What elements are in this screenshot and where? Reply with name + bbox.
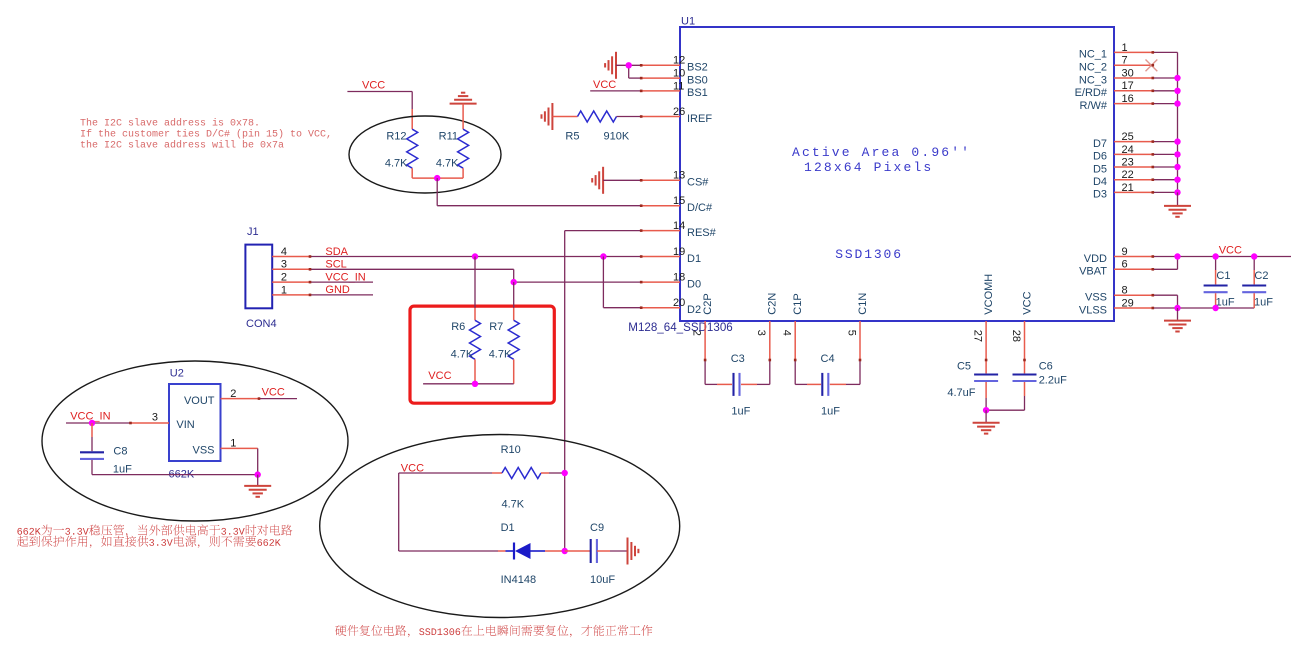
U1 pin 18 D0 stub: [641, 272, 701, 291]
wire D4 to bus and junction: [1153, 177, 1181, 183]
wire VBAT up to VDD: [1153, 257, 1178, 270]
svg-text:4: 4: [281, 246, 287, 258]
svg-text:12: 12: [673, 55, 685, 67]
svg-text:U2: U2: [170, 368, 184, 380]
svg-text:2: 2: [691, 330, 703, 336]
svg-text:NC_3: NC_3: [1079, 74, 1107, 86]
no-connect X on NC_2: [1146, 60, 1158, 72]
wire junction down to D/C# net: [437, 178, 641, 206]
wire C4 to C1N: [830, 321, 860, 384]
wire VCC_IN from J1: [310, 281, 373, 283]
svg-text:27: 27: [972, 330, 984, 342]
U1 pin 22 D4 stub: [1093, 169, 1153, 188]
wire C1P down: [795, 321, 821, 384]
wire diode to junction: [545, 550, 565, 552]
svg-text:24: 24: [1122, 144, 1134, 156]
svg-text:VCC: VCC: [362, 80, 385, 92]
resistor R11 4.7K: [436, 129, 469, 169]
U1 pin 13 CS# stub: [641, 170, 709, 189]
junction VDD VBAT: [1174, 253, 1180, 259]
junction SCL D0 R7: [511, 279, 517, 285]
svg-text:20: 20: [673, 297, 685, 309]
U1 pin 1 NC_1 stub: [1079, 42, 1153, 61]
wire D0 from SCL bend to U1: [514, 281, 642, 283]
svg-text:C2P: C2P: [702, 293, 714, 314]
svg-text:the I2C slave address will be: the I2C slave address will be 0x7a: [80, 140, 284, 152]
svg-text:BS1: BS1: [687, 87, 708, 99]
svg-text:BS0: BS0: [687, 74, 708, 86]
capacitor C4 1uF: [821, 353, 841, 418]
J1 pin 4 stub: [272, 246, 310, 258]
wire NC_3 to bus and junction: [1153, 75, 1181, 81]
svg-text:1uF: 1uF: [731, 406, 750, 418]
wire VCC left side down: [399, 473, 498, 551]
net label VCC_IN at U2: [70, 410, 110, 422]
svg-text:D5: D5: [1093, 163, 1107, 175]
svg-text:4.7K: 4.7K: [451, 349, 474, 361]
resistor R7 4.7K: [489, 320, 520, 360]
note text 662K regulator (chinese): [17, 524, 292, 548]
power port VCC at reset circuit: [401, 463, 424, 475]
svg-text:1: 1: [1122, 42, 1128, 54]
U1 pin 8 VSS stub: [1085, 285, 1153, 304]
svg-text:128x64 Pixels: 128x64 Pixels: [804, 160, 933, 175]
U1 pin 4 C1P (bottom): [781, 293, 804, 336]
svg-text:1: 1: [230, 438, 236, 450]
junction C1 top: [1212, 253, 1218, 259]
U1 pin 3 C2N (bottom): [755, 293, 778, 336]
capacitor C8 1uF: [80, 423, 132, 476]
svg-text:C5: C5: [957, 361, 971, 373]
svg-text:4.7K: 4.7K: [436, 158, 459, 170]
svg-text:14: 14: [673, 220, 685, 232]
power port VCC at VOUT: [262, 387, 285, 399]
junction BS2 gnd: [626, 62, 632, 68]
ground below U2: [244, 475, 271, 497]
svg-text:M128_64_SSD1306: M128_64_SSD1306: [628, 321, 732, 334]
regulator U2 662K body: [169, 368, 221, 481]
U1 pin 14 RES# stub: [641, 220, 716, 239]
highlight red rectangle around R6 R7: [410, 306, 554, 403]
svg-text:NC_2: NC_2: [1079, 62, 1107, 74]
wire D7 to bus and junction: [1153, 138, 1181, 144]
ground at BS2 BS0 (pointing left): [605, 52, 616, 79]
svg-text:6: 6: [1122, 259, 1128, 271]
svg-text:D3: D3: [1093, 189, 1107, 201]
wire ground to R11: [462, 104, 464, 130]
capacitor C6 2.2uF: [986, 321, 1067, 410]
junction VLSS ground: [1174, 305, 1180, 311]
svg-text:VCC: VCC: [1219, 245, 1242, 257]
U1 text Active Area 0.96 inch: [792, 145, 971, 160]
svg-text:D4: D4: [1093, 176, 1107, 188]
ellipse around R12 R11: [349, 116, 501, 193]
U1 pin 17 E/RD# stub: [1075, 80, 1153, 99]
junction RES# D1 C9: [562, 548, 568, 554]
ground right of C9 (pointing right): [628, 538, 639, 565]
svg-text:VCC: VCC: [428, 370, 451, 382]
svg-text:VCC: VCC: [1021, 291, 1033, 314]
wire VLSS rail: [1153, 307, 1254, 309]
wire ground to BS2 BS0: [616, 65, 641, 78]
wire SDA to U1 D1: [310, 256, 641, 258]
J1 pin 3 stub: [272, 259, 310, 271]
U1 comment M128_64_SSD1306: [628, 321, 732, 334]
junction C2 top: [1251, 253, 1257, 259]
svg-text:17: 17: [1122, 80, 1134, 92]
U1 pin 21 D3 stub: [1093, 182, 1153, 201]
svg-text:4.7K: 4.7K: [502, 499, 525, 511]
diode D1 IN4148: [498, 522, 545, 586]
U1 pin 19 D1 stub: [641, 246, 701, 265]
J1 pin 1 stub: [272, 284, 310, 296]
junction R6 VCC rail: [472, 381, 478, 387]
svg-text:R6: R6: [451, 321, 465, 333]
wire VCC to R12 (top left): [347, 92, 412, 130]
U1 text 128x64 Pixels: [804, 160, 933, 175]
svg-text:11: 11: [673, 80, 684, 92]
svg-text:U1: U1: [681, 16, 695, 28]
U1 pin 20 D2 stub: [641, 297, 701, 316]
svg-text:3: 3: [152, 412, 158, 424]
svg-text:RES#: RES#: [687, 227, 717, 239]
wire D5 to bus and junction: [1153, 164, 1181, 170]
svg-text:2.2uF: 2.2uF: [1039, 375, 1067, 387]
power port VCC in red box: [428, 370, 451, 382]
svg-text:4.7uF: 4.7uF: [947, 387, 975, 399]
svg-text:1uF: 1uF: [1254, 297, 1273, 309]
svg-text:13: 13: [673, 170, 685, 182]
svg-text:VSS: VSS: [192, 445, 214, 457]
svg-text:VLSS: VLSS: [1079, 304, 1107, 316]
svg-text:2: 2: [281, 272, 287, 284]
ground below NC bus: [1164, 192, 1191, 216]
wire VCC rail to R10: [399, 472, 502, 474]
svg-text:The I2C slave address is 0x78.: The I2C slave address is 0x78.: [80, 118, 260, 130]
wire NC_1 to vertical bus: [1153, 52, 1178, 192]
power port VCC at BS1: [590, 79, 641, 91]
svg-text:8: 8: [1122, 285, 1128, 297]
svg-text:16: 16: [1122, 93, 1134, 105]
note text I2C address: [80, 118, 332, 152]
svg-text:VBAT: VBAT: [1079, 266, 1107, 278]
U2 pin 2 VOUT: [184, 388, 297, 407]
svg-text:D0: D0: [687, 278, 701, 290]
svg-text:7: 7: [1122, 55, 1128, 67]
wire D6 to bus and junction: [1153, 151, 1181, 157]
wire VSS down to VLSS: [1153, 295, 1178, 308]
wire GND from J1: [310, 294, 373, 296]
net label GND: [325, 284, 350, 296]
U1 text SSD1306: [835, 247, 903, 262]
U1 pin 11 BS1 stub: [641, 80, 708, 99]
resistor R6 4.7K: [451, 320, 481, 360]
wire E/RD# to bus and junction: [1153, 88, 1181, 94]
svg-text:D2: D2: [687, 304, 701, 316]
junction R12 R11: [434, 175, 440, 181]
svg-text:C2N: C2N: [767, 293, 779, 315]
svg-text:R10: R10: [501, 444, 521, 456]
svg-text:26: 26: [673, 106, 685, 118]
svg-text:910K: 910K: [604, 130, 630, 142]
svg-text:J1: J1: [247, 226, 259, 238]
svg-text:3: 3: [281, 259, 287, 271]
svg-text:VSS: VSS: [1085, 292, 1107, 304]
svg-text:D1: D1: [501, 522, 515, 534]
ground at R5 (pointing left): [542, 103, 553, 130]
wire VDD rail VCC: [1153, 256, 1291, 258]
svg-text:C1: C1: [1216, 270, 1230, 282]
svg-text:28: 28: [1010, 330, 1022, 342]
U2 pin 3 VIN: [66, 412, 195, 432]
net label SCL: [325, 259, 346, 271]
svg-text:VCC: VCC: [262, 387, 285, 399]
svg-text:1uF: 1uF: [821, 406, 840, 418]
svg-text:C9: C9: [590, 522, 604, 534]
capacitor C3 1uF: [731, 353, 751, 418]
junction C1 bottom: [1212, 305, 1218, 311]
svg-text:30: 30: [1122, 67, 1134, 79]
net label VCC_IN: [325, 271, 365, 283]
resistor R5 910K: [552, 111, 641, 142]
svg-text:D/C#: D/C#: [687, 202, 713, 214]
svg-text:VDD: VDD: [1084, 253, 1107, 265]
IC U1 SSD1306 body: [680, 16, 1114, 322]
svg-text:4: 4: [781, 330, 793, 336]
U1 pin 24 D6 stub: [1093, 144, 1153, 163]
svg-text:1: 1: [281, 284, 287, 296]
connector J1 CON4: [245, 226, 276, 330]
svg-text:NC_1: NC_1: [1079, 49, 1107, 61]
svg-text:VIN: VIN: [176, 419, 194, 431]
wire R10 to RES# junction: [541, 472, 565, 474]
U1 pin 28 VCC (bottom): [1010, 291, 1033, 342]
J1 pin 2 stub: [272, 272, 310, 284]
wire C3 to C2N: [741, 321, 770, 384]
U2 pin 1 VSS: [192, 438, 257, 475]
U1 pin 29 VLSS stub: [1079, 297, 1153, 316]
wire SDA down to R6: [474, 257, 476, 321]
wire C2P down: [705, 321, 732, 384]
ellipse around reset circuit: [320, 435, 680, 618]
svg-text:15: 15: [673, 195, 685, 207]
svg-text:10uF: 10uF: [590, 574, 615, 586]
svg-text:IN4148: IN4148: [501, 574, 536, 586]
capacitor C9 10uF: [565, 522, 627, 586]
U1 pin 25 D7 stub: [1093, 131, 1153, 150]
U1 pin 10 BS0 stub: [641, 68, 708, 87]
svg-text:19: 19: [673, 246, 685, 258]
wire SCL to down bend: [310, 269, 514, 282]
wire R12 R11 bottoms join: [412, 168, 463, 178]
svg-text:CS#: CS#: [687, 177, 709, 189]
svg-text:4.7K: 4.7K: [385, 158, 408, 170]
svg-text:C4: C4: [821, 353, 835, 365]
wire RES# net vertical: [565, 231, 642, 551]
svg-text:22: 22: [1122, 169, 1134, 181]
resistor R12 4.7K: [385, 129, 418, 169]
svg-text:If the customer ties D/C# (pin: If the customer ties D/C# (pin 15) to VC…: [80, 129, 332, 141]
note text hardware reset (chinese): [335, 625, 652, 637]
svg-text:R5: R5: [565, 130, 579, 142]
svg-text:3: 3: [755, 330, 767, 336]
svg-text:C6: C6: [1039, 361, 1053, 373]
svg-text:10: 10: [673, 68, 685, 80]
U1 pin 6 VBAT stub: [1079, 259, 1153, 278]
U1 pin 23 D5 stub: [1093, 156, 1153, 175]
svg-text:C8: C8: [113, 446, 127, 458]
U1 pin 7 NC_2 stub: [1079, 55, 1153, 74]
U1 pin 2 C2P (bottom): [691, 293, 714, 336]
svg-text:C1P: C1P: [792, 293, 804, 314]
svg-text:R12: R12: [386, 131, 406, 143]
svg-text:R7: R7: [489, 321, 503, 333]
ellipse around U2 regulator: [42, 361, 348, 521]
capacitor C5 4.7uF: [947, 321, 998, 410]
junction SDA D2 branch: [600, 253, 606, 259]
U1 pin 15 D/C# stub: [641, 195, 713, 214]
svg-text:4.7K: 4.7K: [489, 349, 512, 361]
junction SDA R6: [472, 253, 478, 259]
ground below VLSS rail: [1164, 308, 1191, 332]
power port VCC (top left): [362, 80, 385, 92]
wire R6 bottom: [474, 359, 476, 384]
wire R/W# to bus and junction: [1153, 100, 1181, 106]
svg-text:C3: C3: [731, 353, 745, 365]
U1 pin 16 R/W# stub: [1080, 93, 1153, 112]
capacitor C2 1uF: [1242, 257, 1273, 309]
svg-text:18: 18: [673, 272, 685, 284]
svg-text:C2: C2: [1254, 270, 1268, 282]
U1 pin 26 IREF stub: [641, 106, 712, 125]
svg-text:R11: R11: [439, 131, 458, 143]
ground above R11 (pointing up): [450, 93, 477, 104]
wire D2 branch: [603, 257, 641, 308]
junction VCOMH ground: [983, 407, 989, 413]
U1 pin 5 C1N (bottom): [845, 293, 868, 336]
U1 pin 12 BS2 stub: [641, 55, 708, 74]
U1 pin 9 VDD stub: [1084, 246, 1153, 265]
svg-text:D1: D1: [687, 253, 701, 265]
wire D3 to bus and junction: [1153, 189, 1181, 195]
svg-text:SSD1306: SSD1306: [835, 247, 903, 262]
svg-text:R/W#: R/W#: [1080, 100, 1108, 112]
junction VCC_IN C8: [89, 420, 95, 426]
ground at CS# (pointing left): [592, 167, 603, 194]
wire R7 bottom to VCC rail: [423, 359, 514, 384]
svg-text:IREF: IREF: [687, 113, 712, 125]
svg-text:23: 23: [1122, 156, 1134, 168]
svg-text:CON4: CON4: [246, 318, 277, 330]
wire C8 to VSS rail: [92, 474, 258, 476]
junction R10 RES#: [562, 470, 568, 476]
svg-text:5: 5: [845, 330, 857, 336]
svg-text:VCOMH: VCOMH: [983, 274, 995, 315]
svg-text:BS2: BS2: [687, 62, 708, 74]
svg-text:E/RD#: E/RD#: [1075, 87, 1108, 99]
wire CS# ground: [603, 179, 641, 181]
svg-text:C1N: C1N: [857, 293, 869, 315]
svg-text:29: 29: [1122, 297, 1134, 309]
svg-text:D6: D6: [1093, 151, 1107, 163]
svg-text:25: 25: [1122, 131, 1134, 143]
ground below C5 C6: [973, 410, 1000, 433]
svg-text:VCC: VCC: [593, 79, 616, 91]
svg-text:D7: D7: [1093, 138, 1107, 150]
svg-text:1uF: 1uF: [113, 464, 132, 476]
resistor R10 4.7K: [501, 444, 541, 511]
power port VCC right rail: [1219, 245, 1242, 257]
U1 pin 30 NC_3 stub: [1079, 67, 1153, 86]
U1 pin 27 VCOMH (bottom): [972, 274, 995, 342]
capacitor C1 1uF: [1204, 257, 1235, 309]
junction VSS ground: [255, 471, 261, 477]
net label SDA: [325, 246, 348, 258]
svg-text:9: 9: [1122, 246, 1128, 258]
svg-text:Active Area 0.96'': Active Area 0.96'': [792, 145, 971, 160]
svg-text:21: 21: [1122, 182, 1134, 194]
pin hotspot tick marks: [129, 51, 1154, 424]
wire SCL down to R7: [513, 282, 515, 320]
svg-text:2: 2: [230, 388, 236, 400]
svg-text:VOUT: VOUT: [184, 395, 215, 407]
